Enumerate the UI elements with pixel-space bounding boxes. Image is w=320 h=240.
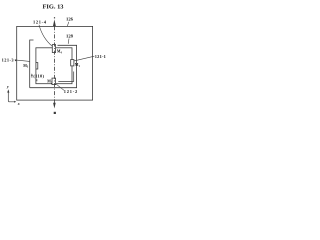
- svg-text:121-2: 121-2: [64, 89, 77, 94]
- vertical center axis dash-dot: [53, 26, 55, 103]
- svg-text:126: 126: [66, 17, 74, 22]
- middle frame 128 right edge and top-right slit: [58, 45, 77, 87]
- axis top arrow: [53, 19, 56, 26]
- outer frame 126: [17, 26, 93, 100]
- svg-text:121-3: 121-3: [2, 57, 15, 62]
- flap mirror M2 bottom: [52, 78, 56, 85]
- leader 126: [67, 22, 69, 26]
- svg-text:(110): (110): [33, 73, 44, 78]
- background: [0, 0, 110, 120]
- svg-text:121-4: 121-4: [33, 19, 47, 24]
- axis bottom arrow: [53, 103, 56, 109]
- svg-text:121-1: 121-1: [95, 54, 106, 59]
- leader 128: [67, 39, 70, 44]
- middle frame 128 left edge with top stub: [30, 40, 34, 88]
- axis top dot: [54, 17, 55, 18]
- left slit tick: [36, 79, 38, 81]
- crystal direction arrow (110): [31, 75, 33, 77]
- coordinate axes glyph: [8, 92, 15, 102]
- svg-text:128: 128: [66, 34, 74, 39]
- leader 121-2: [56, 84, 64, 91]
- inner plate: [36, 48, 72, 84]
- flap mirror M1 right: [71, 60, 74, 66]
- axis bottom dot: [54, 112, 56, 114]
- bottom-right slit: [58, 72, 73, 82]
- leader 121-4: [39, 25, 52, 46]
- svg-text:x: x: [17, 102, 20, 106]
- leader 121-3 with arrow: [15, 60, 30, 62]
- y axis arrowhead: [7, 89, 9, 92]
- svg-text:FIG. 13: FIG. 13: [43, 3, 64, 10]
- middle frame 128 bottom edge: [30, 87, 77, 89]
- leader 121-1: [74, 56, 94, 61]
- flap mirror M4 top: [52, 45, 55, 53]
- flap mirror M3 left: [36, 63, 38, 69]
- svg-text:y: y: [6, 85, 9, 89]
- x axis arrowhead: [14, 101, 16, 103]
